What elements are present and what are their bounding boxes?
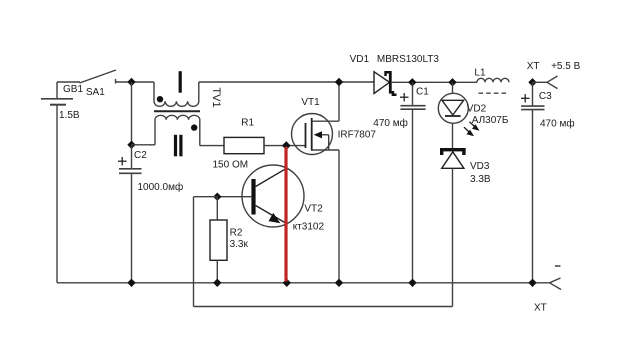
emitter wire hidden under red [286,224,288,283]
svg-text:1.5В: 1.5В [59,110,80,121]
wire node A down to node B [131,82,133,145]
wire VD1 to L1 [392,81,477,83]
svg-text:VT2: VT2 [304,204,323,215]
top rail wire [199,81,374,83]
minus sign [555,265,561,267]
LED VD2 (АЛ307Б) [438,82,468,148]
svg-text:SA1: SA1 [86,87,105,98]
svg-text:XT: XT [534,302,547,313]
svg-text:VD2: VD2 [467,103,487,114]
svg-text:VD1: VD1 [350,54,370,65]
wire node B to secondary left [132,144,156,146]
node A junction [127,78,135,86]
node VT1 source bottom [335,279,343,287]
resistor R2 [210,197,227,283]
wire secondary right to R1 [200,145,224,147]
op collector wire hidden under red [285,146,287,168]
resistor R1 [224,137,264,153]
svg-text:470 мф: 470 мф [373,117,408,129]
svg-text:R1: R1 [241,117,254,128]
transistor VT1 (MOSFET IRF7807) [292,82,340,283]
output terminal XT plus [533,76,558,89]
svg-text:470 мф: 470 мф [540,118,575,130]
node B junction [127,141,135,149]
inductor L1 [477,78,509,93]
transistor VT2 (кт3102) [242,165,304,227]
node LED top junction [448,78,456,86]
wire base to R2 node [217,196,251,198]
wire switch to node A [116,81,155,83]
svg-text:3.3В: 3.3В [470,174,491,185]
zener VD3 [440,148,466,168]
capacitor C1 [400,82,425,282]
node base junction [213,193,221,201]
battery GB1 [41,82,73,283]
svg-text:VD3: VD3 [470,161,490,172]
svg-text:C2: C2 [134,150,147,161]
svg-text:150 ОМ: 150 ОМ [213,160,249,171]
transformer TV1 primary winding [154,82,199,106]
transformer core [154,110,200,112]
VD2 light arrows [464,122,480,136]
capacitor C3 [521,82,544,282]
node C2 bottom [127,279,135,287]
switch SA1 [80,70,117,84]
node drain junction [335,78,343,86]
secondary phase dot [191,124,197,130]
primary phase dot [157,96,163,102]
wire VD3 anode down to feedback [452,168,454,306]
wire R1 to gate node [264,145,306,147]
node C3 bottom [528,279,536,287]
svg-text:TV1: TV1 [210,87,222,107]
svg-text:АЛ307Б: АЛ307Б [472,115,509,126]
svg-text:MBRS130LT3: MBRS130LT3 [377,54,440,65]
node emitter bottom [283,279,291,287]
C3 plus sign [521,94,530,102]
node R2 bottom [213,279,221,287]
node C1 bottom [408,279,416,287]
diode VD1 (MBRS130LT3) [374,71,397,96]
node gate junction [282,141,291,150]
C2 plus sign [118,157,127,165]
svg-text:R2: R2 [230,227,243,238]
node C3 top junction [528,78,536,86]
C1 plus sign [400,93,409,101]
svg-text:+5.5 В: +5.5 В [551,61,581,72]
svg-text:L1: L1 [474,67,486,78]
red highlight wire [284,147,287,282]
node C1 top junction [408,78,416,86]
bottom rail wire [57,282,550,284]
winding numeral II [174,135,183,157]
svg-text:IRF7807: IRF7807 [338,129,377,140]
wire battery to switch [57,81,80,83]
winding numeral I [179,71,182,93]
svg-text:GB1: GB1 [63,84,83,95]
svg-text:1000.0мф: 1000.0мф [138,181,184,193]
transformer TV1 secondary winding [155,115,200,145]
svg-text:C1: C1 [416,86,429,97]
feedback wire base to zener [194,197,453,307]
svg-text:C3: C3 [539,91,552,102]
svg-text:кт3102: кт3102 [293,221,325,232]
capacitor C2 [119,145,142,283]
svg-text:XT: XT [527,61,540,72]
svg-text:3.3к: 3.3к [230,239,249,250]
output terminal XT minus [550,278,562,290]
svg-text:VT1: VT1 [301,97,320,108]
